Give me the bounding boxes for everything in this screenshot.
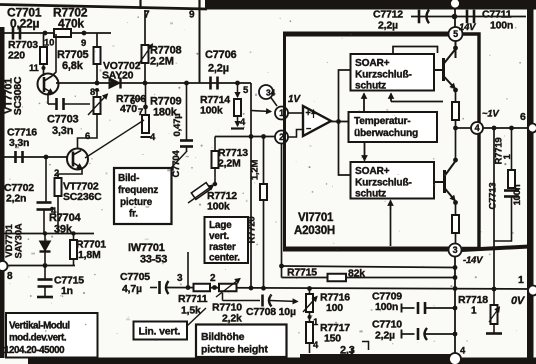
wire C7703 left: [48, 103, 57, 105]
bottom border bar: [28, 358, 536, 364]
resistor R7720: [260, 184, 267, 200]
wire R7713 top: [214, 137, 216, 152]
svg-text:100n: 100n: [512, 184, 523, 205]
wire Q2 emitter: [445, 188, 458, 205]
R7714 bottom tick4: [231, 116, 246, 129]
svg-text:2,2M: 2,2M: [150, 56, 174, 68]
node R7716 top: [307, 286, 312, 291]
wire pin3 down: [454, 257, 456, 355]
wire VT7701 collector: [52, 34, 56, 76]
node R7705 rail83: [95, 81, 100, 86]
capacitor C7710: [402, 328, 456, 340]
wire y288 main: [167, 288, 531, 290]
resistor R7714 column tick5: [235, 83, 249, 97]
Temperatur box: [349, 112, 438, 142]
C7712 label: [373, 9, 403, 32]
wire R7710 wiper down: [222, 293, 224, 301]
terminal 6: [520, 111, 536, 133]
wire long vertical x251: [250, 110, 252, 288]
wire C7702 column: [45, 157, 47, 202]
svg-text:2,2n: 2,2n: [6, 193, 26, 205]
wire top terminal down: [454, 8, 456, 28]
resistor R7713: [212, 151, 219, 168]
diagonal to Bild box: [171, 151, 187, 168]
svg-text:5: 5: [453, 29, 458, 39]
svg-text:100: 100: [326, 302, 343, 314]
wire R7704 bottom: [57, 196, 59, 234]
wire pin7 column: [144, 10, 146, 83]
IC label VI7701: [294, 212, 335, 237]
svg-text:Temperatur-: Temperatur-: [354, 116, 410, 127]
C7704 rotated label: [171, 114, 183, 178]
wire C7702 bottom: [43, 210, 45, 234]
resistor R7718: [489, 289, 500, 324]
svg-text:+: +: [306, 108, 311, 118]
left border bar: [0, 27, 5, 358]
R7720 rotated label: [247, 160, 261, 244]
node C7704 rail83: [184, 81, 189, 86]
svg-text:Lage: Lage: [209, 220, 232, 231]
svg-text:220: 220: [8, 50, 25, 62]
svg-text:39k: 39k: [54, 224, 73, 236]
wire y266: [282, 266, 456, 268]
C7711 label: [482, 9, 513, 32]
svg-text:8: 8: [7, 271, 13, 282]
svg-text:SOAR+: SOAR+: [355, 58, 390, 69]
capacitor C7715: [37, 266, 53, 298]
svg-text:3,3n: 3,3n: [9, 137, 29, 149]
node pin7 rail83: [143, 81, 148, 86]
R7701 label: [76, 239, 106, 262]
leader diagonal to VT7702: [85, 120, 144, 158]
node R7701 col: [71, 231, 75, 235]
svg-text:6,8k: 6,8k: [62, 60, 84, 72]
node 10 junction: [43, 31, 48, 36]
wire Q1 collector: [444, 49, 456, 64]
wire R7719 link: [511, 128, 513, 170]
svg-text:4: 4: [475, 123, 480, 133]
node R7718 col top: [492, 126, 497, 131]
C7708 label: [246, 306, 296, 318]
svg-text:C7708 10µ: C7708 10µ: [246, 306, 296, 318]
SOAR1 box: [351, 54, 435, 92]
wire top rail y33: [3, 32, 111, 34]
wire R7713 to R7712: [213, 168, 217, 186]
node 3 junction: [177, 273, 190, 290]
node x251 y288: [249, 286, 254, 291]
label 0V: [511, 295, 526, 307]
connector pin tick 7: [139, 0, 141, 9]
Lin vert box: [134, 322, 188, 340]
IC pin circle 3: [449, 244, 462, 257]
node 7 junction: [138, 105, 148, 118]
svg-text:Bild-: Bild-: [118, 173, 139, 184]
capacitor C7706: [211, 77, 218, 90]
svg-text:4,7µ: 4,7µ: [122, 283, 142, 295]
C7705 label: [120, 271, 150, 295]
wire rail to pin3: [455, 233, 457, 244]
svg-text:1204.20-45000: 1204.20-45000: [4, 345, 65, 356]
C7713 rotated label: [488, 183, 524, 210]
node R7720 on pin2 wire: [261, 134, 266, 139]
svg-text:C7704: C7704: [171, 150, 182, 178]
wire VT7702 emitter col: [58, 169, 82, 179]
wire Q2 collector: [445, 161, 456, 176]
arrow C7708 to R7716: [270, 299, 298, 304]
node y288 cross: [453, 286, 458, 291]
top border rail left: [0, 5, 207, 10]
svg-text:raster: raster: [209, 242, 236, 253]
svg-text:SAY30A: SAY30A: [14, 223, 25, 258]
wire VT7701 emitter to C7703: [47, 95, 49, 105]
label ~1V: [482, 109, 499, 120]
R7710 label: [212, 302, 242, 325]
svg-text:1: 1: [471, 306, 477, 317]
wire x494 down: [493, 128, 495, 289]
R7717 label: [320, 322, 350, 345]
svg-text:Lin. vert.: Lin. vert.: [139, 326, 181, 338]
capacitor C7704: [180, 141, 193, 147]
arrow SOAR1 to Temp a: [362, 94, 367, 113]
node 9 junction: [81, 31, 86, 49]
SOAR1 top bracket wire: [393, 47, 438, 55]
capacitor C7711: [467, 10, 474, 24]
svg-text:-14V: -14V: [463, 255, 483, 266]
VT7701 rotated label: [3, 76, 25, 115]
node 6 tick: [130, 96, 145, 107]
svg-text:2,2k: 2,2k: [222, 313, 242, 325]
wire pin2 column down: [281, 144, 283, 278]
wire y277 R7715: [282, 277, 456, 279]
connector pin tick 9: [198, 0, 200, 10]
svg-text:82k: 82k: [348, 268, 365, 280]
transistor Q1: [442, 58, 445, 81]
wire center col x188: [187, 252, 189, 288]
op-amp U1: [303, 106, 331, 136]
svg-text:3,3n: 3,3n: [52, 125, 74, 137]
label 14V: [459, 22, 476, 33]
wire C7704 bottom: [186, 147, 188, 152]
C7715 label: [54, 275, 84, 298]
svg-text:A2030H: A2030H: [294, 225, 335, 237]
node 8 label: [90, 87, 99, 98]
wire rail pin5 down: [455, 41, 457, 58]
svg-text:Vertikal-Modul: Vertikal-Modul: [9, 321, 70, 332]
label -14V: [463, 255, 483, 266]
node C7709 end: [453, 306, 458, 311]
svg-text:SOAR+: SOAR+: [355, 166, 390, 177]
pin 9 label: [189, 10, 195, 21]
svg-text:3: 3: [453, 245, 458, 255]
R7713 label: [218, 147, 248, 170]
svg-text:1,2M: 1,2M: [250, 160, 261, 181]
wire elbow to opamp input1: [250, 83, 252, 111]
capacitor C7712: [419, 10, 429, 24]
wire opamp output: [331, 121, 349, 123]
svg-text:SC236C: SC236C: [63, 191, 102, 203]
svg-text:9: 9: [81, 38, 86, 49]
wire Q1 emitter: [444, 76, 458, 92]
node 4 tick: [50, 206, 57, 217]
node y277 end: [453, 275, 458, 280]
node R7714 rail83: [235, 81, 240, 86]
node C7710 end: [453, 332, 458, 337]
R7719 rotated label: [494, 138, 514, 165]
node diode col: [43, 231, 47, 235]
wire Q2 base: [434, 181, 445, 183]
svg-text:9: 9: [189, 10, 195, 21]
svg-text:2: 2: [210, 273, 216, 284]
capacitor C7709: [402, 302, 456, 314]
svg-text:34: 34: [266, 87, 276, 97]
node 6 label: [85, 131, 90, 142]
R7705 label: [57, 49, 88, 72]
arrow SOAR1 elbow b: [389, 94, 444, 102]
wire pin4 to terminal 6: [483, 127, 528, 129]
svg-text:6: 6: [85, 131, 90, 142]
pin 4 label bottom: [460, 346, 466, 357]
VT7702 label: [63, 181, 102, 204]
svg-text:R7704: R7704: [49, 212, 81, 224]
right border bar: [527, 0, 534, 364]
svg-text:100n: 100n: [375, 301, 398, 313]
capacitor C7705: [150, 281, 169, 294]
node opamp output: [336, 119, 341, 124]
resistor R7708: [142, 45, 149, 63]
terminal top: [450, 0, 460, 9]
Bildhoehe box: [196, 325, 287, 358]
IC box left edge: [283, 32, 286, 251]
arrow into pin1: [251, 109, 271, 114]
R7716 label: [320, 292, 350, 315]
svg-text:1: 1: [518, 274, 524, 286]
svg-text:2,2µ: 2,2µ: [208, 63, 229, 75]
R7708 label: [150, 45, 181, 68]
wire feedback up to SOAR1: [339, 70, 352, 122]
svg-text:Kurzschluß-: Kurzschluß-: [355, 70, 412, 81]
svg-text:1,8M: 1,8M: [78, 249, 101, 261]
IC pin circle 1: [275, 107, 288, 120]
wire pin2 input: [215, 136, 275, 138]
node 2 junction: [210, 273, 217, 290]
node 2 label: [54, 168, 59, 179]
arrow SOAR2 bottom: [388, 201, 393, 247]
node y288 x494: [492, 287, 497, 292]
node top wire: [452, 14, 458, 20]
wire C7703 right: [64, 103, 91, 105]
IC box right edge: [462, 34, 479, 249]
transistor VT7701: [38, 74, 59, 95]
svg-text:−: −: [306, 124, 311, 134]
R7706 label: [116, 93, 146, 115]
SOAR2 box: [351, 162, 435, 200]
R7708 wiper arrow: [138, 44, 153, 65]
R7702 label: [53, 6, 88, 31]
wire pin9 column: [199, 10, 201, 83]
measure point 2,3: [340, 342, 369, 357]
svg-text:Bildhöhe: Bildhöhe: [201, 331, 245, 343]
node base junction: [44, 155, 49, 160]
IC pin circle 5: [449, 27, 463, 41]
svg-text:6: 6: [130, 96, 135, 107]
resistor R7703: [40, 47, 47, 64]
wire R7706 top: [96, 90, 98, 97]
svg-text:3: 3: [177, 273, 183, 284]
svg-text:center.: center.: [209, 253, 240, 264]
svg-text:R7715: R7715: [287, 267, 317, 279]
R7715 label: [287, 267, 365, 280]
svg-text:2,2µ: 2,2µ: [378, 20, 398, 32]
capacitor C7703: [57, 98, 64, 110]
transistor VT7702: [67, 149, 88, 170]
wire rail pin4 down: [453, 128, 458, 162]
capacitor C7713: [504, 191, 519, 197]
Bildfrequenz box: [114, 168, 172, 224]
diode VD7701: [40, 234, 51, 266]
svg-text:R7718: R7718: [458, 294, 488, 306]
resistor R7714: [234, 99, 241, 116]
node rail top: [453, 46, 458, 51]
wire pin3 thick to border: [462, 247, 530, 251]
resistor R int2: [452, 215, 459, 233]
svg-text:2,2µ: 2,2µ: [375, 330, 395, 342]
wire R7709 column: [145, 83, 147, 134]
resistor R7717: [306, 322, 313, 343]
R7712 label: [207, 190, 237, 213]
node y266 start: [279, 264, 284, 269]
terminal 8: [0, 261, 13, 282]
node C7715: [43, 263, 48, 268]
label IW7701: [128, 242, 167, 266]
svg-text:R7711: R7711: [178, 293, 208, 305]
svg-text:0V: 0V: [511, 295, 526, 307]
transistor Q2: [443, 170, 446, 193]
wire rail y83: [56, 82, 251, 84]
C7709 label: [372, 291, 402, 314]
svg-text:14V: 14V: [459, 22, 476, 33]
wire rail low: [455, 203, 457, 216]
wire pin4 link: [456, 127, 472, 129]
VO7702 label: [102, 60, 141, 82]
svg-text:SC308C: SC308C: [12, 76, 24, 115]
svg-text:100k: 100k: [200, 105, 223, 117]
wire R7706 bottom: [78, 114, 98, 149]
capacitor C7702: [37, 203, 52, 210]
wire y265: [3, 265, 75, 267]
IC pin circle 4: [471, 122, 483, 134]
node x251 on pin2 wire: [249, 134, 254, 139]
svg-text:~1V: ~1V: [482, 109, 499, 120]
resistor R7709: [142, 115, 149, 133]
resistor R int1: [452, 102, 459, 120]
R7709 label: [150, 96, 181, 119]
arrow Temp to SOAR2: [362, 142, 367, 161]
capacitor C7716: [16, 151, 23, 163]
C7703 label: [47, 114, 78, 138]
svg-text:6: 6: [520, 111, 526, 123]
resistor R7719: [508, 170, 515, 188]
wire R7720 column: [263, 137, 265, 289]
svg-text:R7720: R7720: [247, 217, 258, 244]
svg-text:schutz: schutz: [355, 81, 386, 92]
potentiometer R7710: [216, 279, 240, 298]
wire y233: [3, 233, 94, 235]
wire C7713 down: [494, 197, 512, 241]
wire pin1 to opamp: [288, 112, 303, 114]
wire C7708 row: [223, 300, 261, 302]
C7702 label: [4, 182, 34, 205]
R7711 label: [178, 293, 208, 317]
wire top supply y16.5: [411, 16, 526, 18]
Vertikal-Modul box: [4, 313, 98, 358]
IC pin circle 2: [275, 131, 288, 144]
wire feedback down to SOAR2: [339, 122, 352, 176]
pin 7 label: [144, 10, 150, 21]
svg-text:470k: 470k: [58, 17, 84, 31]
R7717 bottom tick4: [310, 340, 320, 353]
potentiometer R7712: [188, 183, 214, 203]
svg-text:2,2M: 2,2M: [218, 158, 241, 170]
wire R7705 to rail83: [96, 64, 98, 83]
R7714 label: [200, 94, 230, 117]
leader Lin vert: [187, 308, 206, 326]
resistor R7701: [70, 234, 77, 266]
node y266 end: [453, 265, 458, 270]
svg-text:0,22µ: 0,22µ: [10, 17, 40, 31]
svg-text:150: 150: [324, 333, 341, 345]
C7710 label: [372, 319, 402, 342]
wire pin2 to opamp: [288, 130, 303, 138]
R7704 label: [49, 212, 81, 236]
R7718 ground: [486, 324, 502, 334]
IC box bottom thick wire: [283, 247, 449, 252]
capacitor C7708: [263, 295, 272, 307]
R7718 label: [458, 294, 488, 317]
wire C7704 column: [186, 83, 188, 140]
C7701 label: [7, 6, 42, 31]
svg-text:vert.: vert.: [209, 231, 230, 242]
svg-text:schutz: schutz: [355, 189, 386, 200]
node R7720 y288: [261, 286, 266, 291]
svg-text:IW7701: IW7701: [128, 242, 165, 254]
terminal 1: [518, 274, 536, 296]
svg-text:fr.: fr.: [129, 209, 138, 220]
label 1V at pin1: [288, 94, 301, 105]
node 11 label: [29, 63, 46, 74]
wire Q1 base: [434, 69, 444, 71]
svg-text:C7713: C7713: [488, 183, 499, 210]
potentiometer R7706: [88, 94, 108, 115]
svg-text:C7706: C7706: [205, 49, 236, 61]
svg-text:picture height: picture height: [201, 344, 268, 356]
node R7719 top: [509, 126, 514, 131]
potentiometer R7716: [303, 289, 317, 313]
wire R7705 branch: [96, 33, 98, 47]
svg-text:1V: 1V: [288, 94, 301, 105]
Lage vert box: [205, 217, 249, 264]
diode VO7702: [109, 78, 121, 89]
R7709 bottom tick: [141, 132, 157, 143]
C7716 label: [7, 127, 37, 150]
svg-text:100n: 100n: [490, 20, 513, 32]
bottom border bar middle thick: [300, 354, 460, 364]
resistor R7705: [94, 47, 101, 64]
svg-text:100k: 100k: [207, 201, 230, 213]
resistor R7702: [54, 29, 71, 37]
VD7701 rotated label: [4, 223, 25, 258]
pin 10 label: [44, 38, 54, 49]
svg-text:0,47µ: 0,47µ: [172, 114, 183, 137]
